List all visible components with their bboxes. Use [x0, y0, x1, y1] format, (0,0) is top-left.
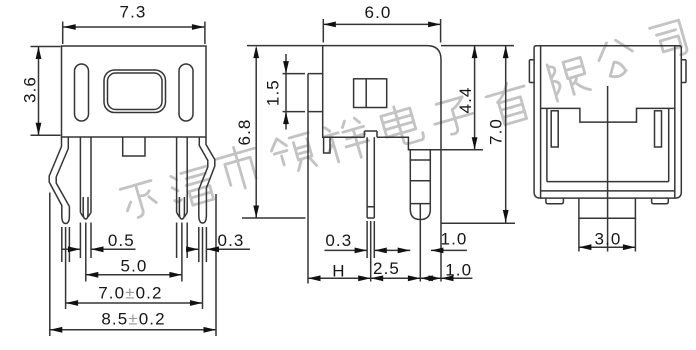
svg-text:7.3: 7.3: [120, 3, 147, 22]
svg-text:2.5: 2.5: [373, 259, 400, 278]
svg-text:6.0: 6.0: [365, 3, 392, 22]
svg-text:7.0±0.2: 7.0±0.2: [98, 284, 162, 303]
svg-text:1.5: 1.5: [264, 79, 283, 106]
svg-text:6.8: 6.8: [235, 119, 254, 146]
svg-text:5.0: 5.0: [121, 256, 148, 275]
svg-text:1.0: 1.0: [445, 260, 472, 279]
svg-text:1.0: 1.0: [441, 230, 468, 249]
svg-text:4.4: 4.4: [456, 87, 475, 114]
svg-text:7.0: 7.0: [487, 118, 506, 145]
svg-text:0.3: 0.3: [325, 231, 352, 250]
svg-text:0.3: 0.3: [218, 231, 245, 250]
svg-text:3.6: 3.6: [20, 76, 39, 103]
svg-text:0.5: 0.5: [108, 231, 135, 250]
svg-text:8.5±0.2: 8.5±0.2: [101, 310, 165, 329]
svg-text:3.0: 3.0: [595, 229, 622, 248]
svg-text:H: H: [332, 261, 345, 280]
